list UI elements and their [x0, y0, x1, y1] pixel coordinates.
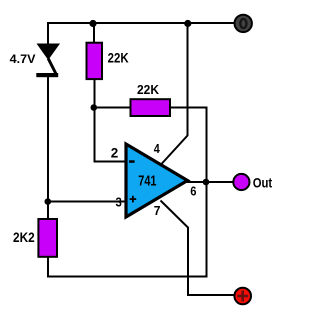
svg-text:22K: 22K [137, 82, 160, 97]
svg-text:6: 6 [190, 183, 196, 198]
node dot (pin 3 / zener / 2K2 junction) [45, 198, 52, 205]
svg-text:2K2: 2K2 [13, 230, 35, 245]
resistor R3 2K2 (vertical) [38, 219, 57, 257]
svg-text:7: 7 [154, 203, 161, 218]
wire bottom rail (2K2 bottom to output vertical) [47, 276, 208, 278]
terminal + (positive supply, bottom right) [234, 288, 251, 305]
wire output horizontal [186, 181, 233, 183]
wire top rail [47, 22, 234, 24]
node dot (output node) [203, 179, 210, 186]
terminal Out [233, 174, 249, 190]
terminal 0 (0V, top right) [235, 15, 252, 32]
svg-text:22K: 22K [108, 51, 129, 66]
minus sign (inverting input) [129, 160, 135, 163]
wire junction to R2 left [95, 107, 131, 109]
wire left rail middle (zener to 2K2) [47, 77, 49, 219]
wire R2 right to output vertical [171, 107, 207, 109]
svg-text:4: 4 [154, 141, 161, 156]
svg-text:3: 3 [116, 195, 122, 210]
node dot (R1 / R2 junction) [91, 104, 98, 111]
plus sign (non-inverting input) [130, 196, 137, 203]
svg-text:Out: Out [253, 174, 273, 190]
wire resistor R1 top stub [93, 23, 95, 43]
wire pin 7 (to + terminal) [161, 201, 235, 296]
resistor R2 22K (horizontal) [131, 99, 171, 116]
wire R1 bottom to pin2 corner [95, 80, 128, 162]
op-amp U1 741 [126, 144, 188, 217]
node dot top left (R1 / top rail) [89, 20, 96, 27]
wire left rail top (to zener) [47, 22, 49, 45]
svg-text:4.7V: 4.7V [10, 52, 36, 66]
zener diode D1 4.7V [36, 44, 60, 78]
svg-text:2: 2 [111, 145, 119, 161]
wire output vertical (feedback / 2K2 to output node) [206, 107, 208, 278]
resistor R1 22K (vertical) [87, 43, 103, 79]
node dot (pin 4 / top rail junction) [184, 20, 191, 27]
wire 2K2 bottom stub [47, 257, 49, 278]
svg-text:741: 741 [138, 173, 156, 190]
wire pin 3 horizontal [48, 201, 127, 203]
wire pin 4 (to top rail) [161, 22, 188, 165]
